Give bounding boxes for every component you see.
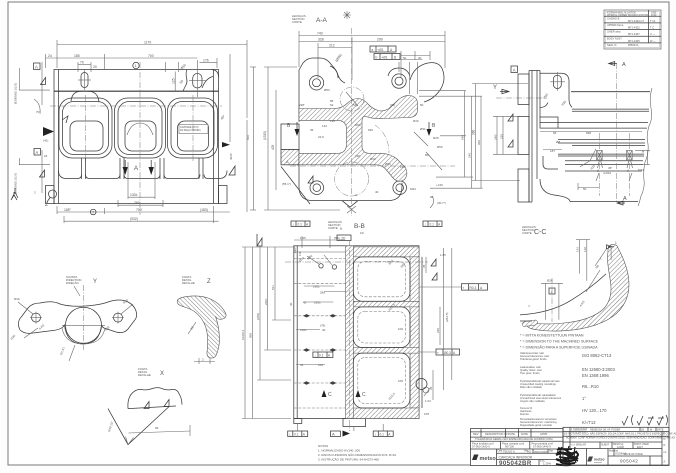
svg-text:DESCRIPTION OF: DESCRIPTION OF — [485, 432, 508, 436]
svg-text:240°: 240° — [494, 133, 498, 140]
svg-text:700: 700 — [148, 54, 154, 58]
svg-text:(1515): (1515) — [263, 131, 267, 140]
svg-text:70°: 70° — [36, 110, 41, 114]
svg-text:R30: R30 — [370, 157, 376, 161]
svg-text:⊥: ⊥ — [289, 432, 292, 436]
svg-text:BODY ASSY: BODY ASSY — [607, 36, 622, 40]
svg-text:A: A — [286, 159, 289, 164]
svg-text:B-B: B-B — [354, 223, 365, 230]
svg-text:R50: R50 — [437, 145, 443, 149]
svg-text:105: 105 — [424, 412, 429, 416]
svg-text:2. RAIOS FUNDIDOS NÃO DIMENSIO: 2. RAIOS FUNDIDOS NÃO DIMENSIONADOS R=6.… — [318, 452, 397, 457]
svg-text:190±: 190± — [314, 301, 321, 305]
svg-text:A: A — [134, 166, 138, 172]
svg-text:Ø0.3: Ø0.3 — [444, 351, 451, 355]
svg-text:105: 105 — [398, 379, 403, 383]
svg-text:WORKG ORDER MODIFICATIONS: WORKG ORDER MODIFICATIONS — [607, 13, 649, 17]
svg-text:1: 1 — [615, 241, 617, 245]
svg-text:(932): (932) — [130, 217, 138, 221]
svg-text:Y: Y — [93, 279, 97, 285]
svg-text:0.1: 0.1 — [294, 432, 299, 436]
svg-text:DIREÇÃO: DIREÇÃO — [66, 280, 80, 285]
svg-text:95: 95 — [155, 426, 159, 430]
svg-text:299: 299 — [377, 38, 383, 42]
svg-text:1°: 1° — [582, 396, 586, 401]
svg-text:* = MITTA KONEISTETTUUN PINTAA: * = MITTA KONEISTETTUUN PINTAAN — [520, 334, 584, 338]
svg-text:630: 630 — [368, 128, 373, 132]
svg-text:142: 142 — [576, 247, 580, 252]
svg-text:12160: 12160 — [617, 446, 625, 449]
svg-text:212: 212 — [329, 44, 335, 48]
svg-text:Raio não moldado: Raio não moldado — [520, 385, 542, 389]
svg-text:24: 24 — [48, 54, 52, 58]
svg-text:Ø90: Ø90 — [385, 162, 391, 166]
svg-text:⌖Ø1: ⌖Ø1 — [382, 55, 388, 59]
svg-text:33: 33 — [300, 363, 304, 367]
svg-text:1170: 1170 — [144, 41, 151, 45]
svg-text:* = DIMENSION TO THE MACHINED: * = DIMENSION TO THE MACHINED SURFACE — [520, 340, 599, 344]
svg-text:40: 40 — [375, 190, 379, 194]
svg-text:R30: R30 — [14, 297, 20, 301]
svg-text:960: 960 — [477, 140, 481, 145]
svg-text:905042BR: 905042BR — [499, 460, 532, 467]
svg-text:DETALHE: DETALHE — [182, 281, 195, 285]
svg-text:1.04: 1.04 — [425, 399, 431, 403]
svg-text:Dureza: Dureza — [520, 412, 529, 416]
svg-text:A: A — [355, 193, 357, 197]
svg-text:HV 130...170: HV 130...170 — [582, 408, 607, 413]
svg-text:30: 30 — [418, 56, 422, 60]
svg-text:a: a — [372, 48, 374, 52]
svg-text:52±: 52± — [271, 285, 275, 290]
svg-text:(183): (183) — [200, 208, 208, 212]
svg-text:0.1: 0.1 — [298, 222, 303, 226]
svg-text:⊂⊃ SIMILAR: ⊂⊃ SIMILAR — [571, 444, 586, 447]
svg-text:(54): (54) — [352, 103, 357, 107]
svg-text:CORTE: CORTE — [522, 231, 532, 235]
svg-text:125: 125 — [171, 78, 175, 84]
svg-text:⊥: ⊥ — [424, 222, 427, 226]
svg-text:960: 960 — [472, 129, 476, 135]
svg-text:NOTAS: NOTAS — [318, 444, 328, 448]
svg-text:K/√T13: K/√T13 — [582, 420, 596, 425]
svg-text:50: 50 — [420, 103, 424, 107]
svg-text:110: 110 — [298, 251, 302, 256]
svg-text:50: 50 — [403, 56, 407, 60]
svg-text:⊥: ⊥ — [292, 222, 295, 226]
svg-text:E24Y: E24Y — [637, 446, 643, 449]
svg-text:Ø8: Ø8 — [556, 140, 560, 144]
svg-text:MTJ-4302: MTJ-4302 — [628, 25, 640, 29]
svg-text:⌖: ⌖ — [463, 286, 465, 290]
svg-text:540: 540 — [461, 135, 465, 140]
svg-text:minerals: minerals — [594, 461, 603, 464]
svg-text:225: 225 — [500, 134, 504, 139]
svg-text:45: 45 — [303, 301, 307, 305]
svg-text:APPR: APPR — [540, 432, 547, 436]
svg-text:700': 700' — [136, 208, 143, 212]
svg-text:Ángulo não moldada: Ángulo não moldada — [520, 399, 545, 403]
svg-text:DATE: DATE — [521, 432, 528, 436]
svg-text:907100: 907100 — [505, 445, 514, 449]
svg-text:DATE OF ISSUE: DATE OF ISSUE — [624, 453, 643, 456]
svg-text:MTJ-4305: MTJ-4305 — [628, 39, 640, 43]
svg-text:M24: M24 — [410, 187, 416, 191]
svg-text:30: 30 — [289, 302, 293, 306]
svg-text:(30.7°): (30.7°) — [437, 201, 446, 205]
svg-text:100: 100 — [318, 363, 323, 367]
svg-text:130±: 130± — [130, 193, 138, 197]
svg-text:LB: LB — [641, 428, 644, 431]
svg-text:185°: 185° — [64, 208, 72, 212]
svg-text:MTJ-4394-CT: MTJ-4394-CT — [628, 19, 644, 23]
svg-text:328: 328 — [318, 38, 324, 42]
svg-text:Z: Z — [207, 279, 211, 285]
svg-text:1: 1 — [135, 64, 137, 68]
svg-text:metso: metso — [480, 456, 497, 462]
svg-text:240: 240 — [468, 153, 472, 158]
svg-text:(78): (78) — [320, 324, 325, 328]
svg-text:Ø200M(0.1/2.0): Ø200M(0.1/2.0) — [14, 173, 18, 194]
svg-text:Y: Y — [493, 85, 497, 91]
svg-text:MTJ-4307: MTJ-4307 — [628, 32, 640, 36]
svg-text:09/01/2006: 09/01/2006 — [534, 450, 548, 454]
svg-text:Ø31: Ø31 — [420, 127, 426, 131]
svg-text:AG: AG — [527, 450, 531, 454]
svg-text:1020±4: 1020±4 — [241, 330, 245, 340]
svg-text:R50: R50 — [355, 123, 361, 127]
svg-text:405: 405 — [271, 144, 275, 150]
svg-text:⊥: ⊥ — [314, 353, 317, 357]
svg-text:28±: 28± — [320, 291, 325, 295]
svg-text:905047A: 905047A — [628, 43, 639, 47]
svg-text:40: 40 — [322, 328, 326, 332]
svg-text:810: 810 — [246, 135, 250, 140]
svg-text:C: C — [328, 392, 332, 398]
svg-text:CASING B: CASING B — [607, 17, 620, 21]
svg-text:A: A — [35, 64, 38, 69]
svg-text:A-A: A-A — [316, 17, 328, 24]
svg-text:238': 238' — [299, 103, 305, 107]
svg-text:130: 130 — [583, 247, 587, 252]
svg-text:Rugosidade geral: usinado: Rugosidade geral: usinado — [520, 423, 552, 427]
svg-text:DA PEÇA FUNDIDA: DA PEÇA FUNDIDA — [180, 129, 201, 132]
svg-text:(55): (55) — [334, 236, 339, 240]
svg-text:45°: 45° — [608, 166, 613, 170]
svg-text:1:20%: 1:20% — [543, 462, 551, 466]
svg-text:CARCAÇA INFERIOR: CARCAÇA INFERIOR — [499, 455, 533, 459]
svg-text:958: 958 — [249, 333, 253, 338]
svg-text:A: A — [513, 67, 516, 72]
svg-text:C: C — [362, 392, 366, 398]
svg-text:70: 70 — [80, 61, 84, 65]
svg-text:B: B — [394, 55, 396, 59]
svg-text:62: 62 — [330, 103, 334, 107]
svg-text:4-R10: 4-R10 — [603, 171, 612, 175]
svg-text:TEUVO A.: TEUVO A. — [503, 450, 516, 454]
svg-text:FOR: FOR — [651, 13, 657, 17]
svg-text:22.5: 22.5 — [318, 135, 324, 139]
svg-text:REV: REV — [473, 432, 479, 436]
svg-text:A: A — [622, 62, 626, 68]
svg-text:ACABAM. CONF NORMA N-5 REV.0 J: ACABAM. CONF NORMA N-5 REV.0 JUNTAS SOLD… — [566, 437, 675, 440]
svg-text:176: 176 — [203, 59, 209, 63]
svg-text:R6...R10: R6...R10 — [582, 384, 599, 389]
svg-text:(268): (268) — [256, 313, 260, 320]
svg-text:Z: Z — [45, 202, 48, 208]
svg-text:A: A — [36, 150, 39, 155]
svg-text:X: X — [160, 371, 164, 377]
svg-text:1. NORMALIZADO HV140..200: 1. NORMALIZADO HV140..200 — [318, 449, 360, 453]
svg-text:T 13: T 13 — [650, 19, 656, 23]
svg-text:M: M — [650, 428, 652, 431]
svg-text:⌖: ⌖ — [437, 351, 439, 355]
svg-text:1.05: 1.05 — [300, 236, 306, 240]
svg-text:0.1: 0.1 — [430, 222, 435, 226]
svg-text:20: 20 — [93, 65, 97, 69]
svg-text:REMESSA DE UF. PODER: REMESSA DE UF. PODER — [590, 428, 620, 431]
svg-text:24: 24 — [44, 154, 48, 158]
svg-text:* = DIMENSÃO PARA A SUPERFICIE: * = DIMENSÃO PARA A SUPERFICIE USINADA — [520, 345, 598, 350]
svg-text:142: 142 — [322, 124, 327, 128]
svg-text:905042: 905042 — [620, 459, 638, 464]
svg-text:R25: R25 — [433, 136, 439, 140]
svg-text:Apr: Apr — [549, 448, 553, 452]
svg-text:07-900-1440-X: 07-900-1440-X — [533, 445, 551, 449]
svg-text:190±: 190± — [313, 285, 320, 289]
svg-text:(55.1°): (55.1°) — [282, 182, 291, 186]
svg-text:SEAL %: SEAL % — [607, 43, 617, 47]
svg-text:+130: +130 — [436, 183, 443, 187]
svg-text:35: 35 — [422, 264, 426, 268]
svg-text:A: A — [332, 432, 335, 437]
svg-text:Toleránca geral: fundo: Toleránca geral: fundo — [520, 357, 547, 361]
svg-text:T C: T C — [650, 25, 654, 29]
svg-text:CORTE: CORTE — [292, 20, 302, 24]
svg-text:ISO 8062-CT13: ISO 8062-CT13 — [582, 353, 612, 358]
svg-text:(284.5): (284.5) — [445, 312, 449, 322]
svg-text:SUBST: SUBST — [601, 444, 610, 447]
svg-text:CORTE: CORTE — [328, 226, 338, 230]
svg-text:260±: 260± — [264, 298, 268, 305]
svg-text:260: 260 — [134, 201, 140, 205]
svg-text:R30: R30 — [413, 119, 419, 123]
svg-text:130: 130 — [330, 119, 335, 123]
svg-text:740: 740 — [317, 32, 323, 36]
svg-text:T: T — [92, 211, 94, 215]
svg-text:⊥: ⊥ — [550, 290, 553, 294]
svg-text:EN 1369:1996: EN 1369:1996 — [582, 373, 609, 378]
svg-text:LINER assy: LINER assy — [607, 30, 621, 34]
svg-text:Ø53: Ø53 — [324, 88, 330, 92]
svg-text:07-900-1420-X: 07-900-1420-X — [472, 445, 490, 449]
svg-text:⊥: ⊥ — [374, 432, 377, 436]
svg-text:45: 45 — [310, 128, 314, 132]
svg-text:W —: W — — [650, 39, 656, 43]
svg-text:[38]: [38] — [390, 103, 395, 107]
svg-text:Ø26: Ø26 — [547, 279, 553, 283]
svg-text:metso: metso — [594, 458, 605, 462]
svg-text:R: R — [664, 444, 666, 447]
svg-text:O: O — [664, 438, 666, 441]
svg-text:A: A — [623, 196, 627, 202]
svg-text:DATE: DATE — [657, 428, 664, 431]
svg-text:9: 9 — [340, 227, 342, 231]
svg-text:4025: 4025 — [229, 153, 233, 160]
svg-text:(30): (30) — [355, 154, 360, 158]
svg-text:EN 12680-3:2003: EN 12680-3:2003 — [582, 367, 615, 372]
svg-text:3. INSTRUÇÃO DE PINTURA: 64-N4: 3. INSTRUÇÃO DE PINTURA: 64-N4273-468 — [318, 457, 379, 462]
svg-text:Tipo grau: fundo: Tipo grau: fundo — [520, 371, 540, 375]
svg-text:b: b — [376, 55, 378, 59]
svg-text:Ø200M(0.1/2.0): Ø200M(0.1/2.0) — [14, 83, 18, 104]
svg-text:R0.3: R0.3 — [470, 286, 477, 290]
svg-text:UPPER frame: UPPER frame — [607, 23, 624, 27]
svg-text:0.1: 0.1 — [319, 353, 324, 357]
svg-text:DETALHE: DETALHE — [138, 373, 151, 377]
svg-text:DATE: DATE — [508, 432, 515, 436]
svg-text:185: 185 — [74, 54, 80, 58]
svg-text:135: 135 — [400, 165, 405, 169]
svg-text:⌖Ø1: ⌖Ø1 — [378, 48, 384, 52]
svg-text:C-C: C-C — [534, 229, 546, 236]
svg-text:(42): (42) — [43, 139, 48, 143]
svg-text:260: 260 — [436, 328, 440, 333]
svg-text:0.1: 0.1 — [380, 432, 385, 436]
svg-text:140±: 140± — [300, 328, 307, 332]
svg-text:U —: U — — [650, 32, 656, 36]
svg-text:100: 100 — [398, 327, 403, 331]
svg-text:M24: M24 — [638, 168, 644, 172]
svg-text:ESTRUTURAS SOLD. NÃO ESPECIF.: ESTRUTURAS SOLD. NÃO ESPECIF. SOLDA CONF… — [564, 433, 676, 436]
svg-text:140±: 140± — [293, 247, 297, 254]
svg-text:40: 40 — [641, 149, 645, 153]
